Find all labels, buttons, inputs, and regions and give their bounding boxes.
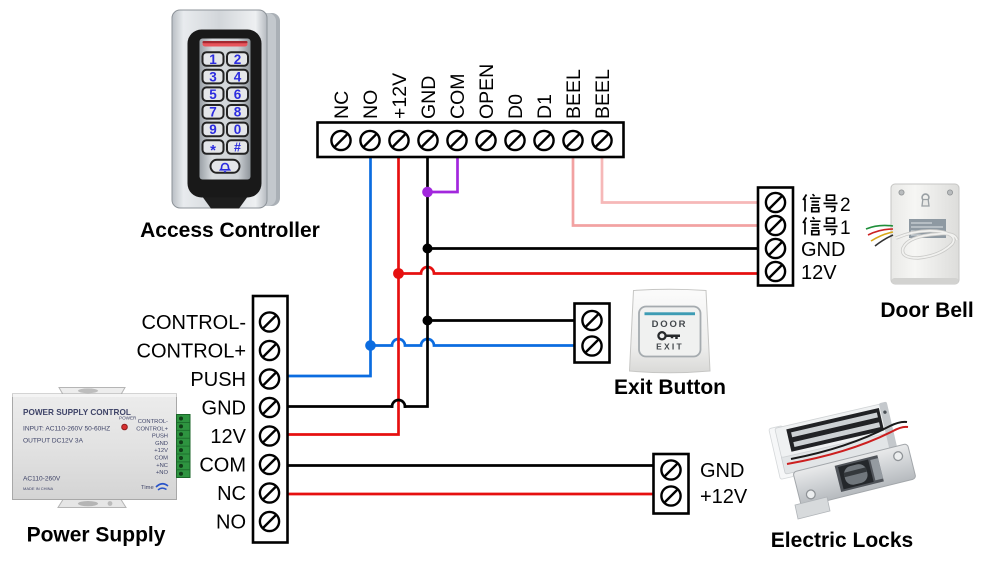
label 信号2 : 号 <box>824 195 838 211</box>
svg-text:+12V: +12V <box>700 486 748 508</box>
strike plate <box>793 444 916 507</box>
svg-text:8: 8 <box>234 105 242 120</box>
svg-text:Access Controller: Access Controller <box>140 219 320 242</box>
keypad black bezel <box>188 30 262 198</box>
electric locks photo <box>769 402 916 519</box>
svg-text:NO: NO <box>360 90 382 119</box>
terminal lock GND <box>661 460 680 479</box>
svg-text:12V: 12V <box>210 426 246 448</box>
svg-text:COM: COM <box>199 455 246 477</box>
svg-text:CONTROL+: CONTROL+ <box>136 426 168 432</box>
exit teal bar <box>645 312 696 315</box>
bell colored lead wires <box>866 225 893 246</box>
door bell pin labels <box>801 239 845 284</box>
terminal 12V (power supply strip) <box>260 426 279 445</box>
node blue junction (exit button / PUSH) <box>365 340 376 351</box>
svg-text:CONTROL-: CONTROL- <box>138 419 168 425</box>
exit key icon <box>658 332 680 339</box>
svg-text:Door Bell: Door Bell <box>880 299 973 322</box>
wire pink BEEL2 to door bell signal2 <box>602 157 758 203</box>
lock pin labels <box>700 460 748 508</box>
svg-text:4: 4 <box>234 69 242 84</box>
exit inner face <box>639 307 701 357</box>
svg-text:OUTPUT DC12V 3A: OUTPUT DC12V 3A <box>23 438 84 445</box>
keypad red led strip <box>203 41 248 47</box>
svg-text:INPUT: AC110-260V 50-60HZ: INPUT: AC110-260V 50-60HZ <box>23 426 110 433</box>
svg-text:COM: COM <box>447 74 469 120</box>
svg-text:0: 0 <box>234 122 242 137</box>
node black junction (door bell GND) <box>423 244 433 254</box>
wire red +12V: top strip down, junction to door bell 12V, down-left to PS 12V <box>288 157 759 435</box>
svg-text:12V: 12V <box>801 262 837 284</box>
svg-text:+12V: +12V <box>389 73 411 119</box>
strike tail plate <box>795 497 830 519</box>
svg-text:CONTROL-: CONTROL- <box>142 312 246 334</box>
svg-text:#: # <box>234 141 241 155</box>
door bell photo <box>866 184 959 284</box>
PS power led <box>122 424 128 430</box>
wire blue NO: top strip NO down, junction, right to exit button, branch to PUSH <box>288 157 575 376</box>
svg-text:GND: GND <box>418 76 440 119</box>
svg-text:3: 3 <box>209 69 217 84</box>
PS top mounting tab <box>59 388 125 395</box>
svg-text:DOOR: DOOR <box>652 319 688 330</box>
svg-text:+12V: +12V <box>154 448 168 454</box>
terminal COM (controller strip) <box>447 131 466 150</box>
svg-text:2: 2 <box>234 52 242 67</box>
svg-text:*: * <box>210 142 216 159</box>
terminal CONTROL- (power supply strip) <box>260 312 279 331</box>
door bell pin labels: drawn Chinese 信号2 / 信号1 <box>803 194 838 211</box>
terminal door bell GND <box>766 239 785 258</box>
svg-text:GND: GND <box>155 441 168 447</box>
terminal door bell 12V <box>766 262 785 281</box>
terminal door bell signal2 <box>766 193 785 212</box>
exit button terminal block <box>575 304 610 363</box>
terminal door bell signal1 <box>766 216 785 235</box>
svg-text:NO: NO <box>216 512 246 534</box>
terminal D1 (controller strip) <box>534 131 553 150</box>
wire pink BEEL1 to door bell signal1 <box>573 157 758 226</box>
terminal D0 (controller strip) <box>505 131 524 150</box>
svg-text:BEEL: BEEL <box>592 69 614 119</box>
svg-text:EXIT: EXIT <box>656 342 684 352</box>
wire purple COM jumper to GND line <box>428 157 458 192</box>
exit button photo <box>630 289 711 373</box>
svg-text:6: 6 <box>234 87 242 102</box>
maglock bar <box>769 402 899 480</box>
svg-text:PUSH: PUSH <box>152 434 168 440</box>
svg-text:BEEL: BEEL <box>563 69 585 119</box>
svg-text:POWER: POWER <box>119 416 137 421</box>
terminal PUSH (power supply strip) <box>260 369 279 388</box>
svg-text:OPEN: OPEN <box>476 64 498 119</box>
wire red NC (PS) to lock +12V <box>288 493 654 496</box>
exit plate <box>630 289 711 373</box>
svg-text:Exit Button: Exit Button <box>614 376 726 399</box>
terminal OPEN (controller strip) <box>476 131 495 150</box>
top strip pin labels (rotated) <box>331 64 614 119</box>
svg-text:D0: D0 <box>505 94 527 119</box>
left (power supply) terminal strip <box>253 296 288 543</box>
svg-text:2: 2 <box>840 195 851 216</box>
captions <box>27 219 974 552</box>
svg-text:GND: GND <box>801 239 845 261</box>
terminal GND (controller strip) <box>418 131 437 150</box>
svg-text:Time: Time <box>141 485 154 491</box>
terminal NO (power supply strip) <box>260 512 279 531</box>
label 信号2 : 信 <box>803 194 821 211</box>
terminal COM (power supply strip) <box>260 455 279 474</box>
svg-text:COM: COM <box>154 456 168 462</box>
terminal CONTROL+ (power supply strip) <box>260 341 279 360</box>
left strip labels <box>137 312 247 534</box>
bell white twisted wire <box>896 231 957 258</box>
svg-text:MADE IN CHINA: MADE IN CHINA <box>23 486 54 491</box>
terminal exit button NO <box>582 336 601 355</box>
terminal +12V (controller strip) <box>389 131 408 150</box>
svg-text:POWER SUPPLY CONTROL: POWER SUPPLY CONTROL <box>23 408 131 417</box>
door bell terminal block <box>758 188 793 286</box>
bell screws <box>899 190 904 195</box>
svg-text:1: 1 <box>209 52 217 67</box>
label 信号1 : 信 <box>803 217 821 234</box>
keypad front metal face <box>172 10 267 208</box>
bell body <box>891 184 959 284</box>
svg-text:Power Supply: Power Supply <box>27 524 166 547</box>
svg-text:Electric Locks: Electric Locks <box>771 529 913 552</box>
svg-text:GND: GND <box>202 398 246 420</box>
terminal NC (power supply strip) <box>260 483 279 502</box>
top terminal strip (controller) <box>318 123 624 158</box>
svg-text:CONTROL+: CONTROL+ <box>137 341 246 363</box>
terminal lock +12V <box>661 486 680 505</box>
node purple junction <box>422 187 433 198</box>
PS silk text <box>23 408 137 491</box>
keypad inner panel <box>200 39 251 180</box>
power supply photo <box>13 388 191 508</box>
wire black COM (PS) to lock GND <box>288 464 654 467</box>
label 信号1 : 号 <box>824 218 838 234</box>
bell sticker <box>909 219 946 238</box>
svg-text:1: 1 <box>840 218 851 239</box>
svg-text:AC110-260V: AC110-260V <box>23 476 61 483</box>
svg-text:+NC: +NC <box>156 463 168 469</box>
terminal NC (controller strip) <box>331 131 350 150</box>
terminal BEEL-1 (controller strip) <box>563 131 582 150</box>
bell keyhole hanger <box>922 194 929 201</box>
svg-text:5: 5 <box>209 87 217 102</box>
access controller keypad photo <box>172 10 280 209</box>
PS body <box>13 394 177 500</box>
svg-text:NC: NC <box>331 91 353 119</box>
node red junction (door bell 12V) <box>393 268 404 279</box>
terminal NO (controller strip) <box>360 131 379 150</box>
svg-text:GND: GND <box>700 460 744 482</box>
svg-text:D1: D1 <box>534 94 556 119</box>
wire black GND: top strip down, branches to door bell GND and exit button, left to PS GND <box>288 157 759 407</box>
lock terminal block <box>654 454 689 514</box>
terminal BEEL-2 (controller strip) <box>592 131 611 150</box>
keypad bottom notch <box>203 198 247 209</box>
terminal GND (power supply strip) <box>260 398 279 417</box>
terminal exit button COM <box>582 311 601 330</box>
maglock wires <box>791 422 907 459</box>
PS bottom mounting tab <box>58 500 126 508</box>
svg-text:9: 9 <box>209 122 217 137</box>
PS green terminal block <box>177 415 191 478</box>
svg-text:+NO: +NO <box>156 470 169 476</box>
node black junction (exit button) <box>423 316 433 326</box>
keypad side face <box>252 13 280 206</box>
PS terminal legend <box>136 419 168 476</box>
keypad keys <box>203 52 249 173</box>
svg-text:PUSH: PUSH <box>190 369 246 391</box>
keypad bell glyph <box>221 164 230 172</box>
svg-text:7: 7 <box>209 105 217 120</box>
svg-text:NC: NC <box>217 483 246 505</box>
terminals of top strip <box>331 131 611 150</box>
